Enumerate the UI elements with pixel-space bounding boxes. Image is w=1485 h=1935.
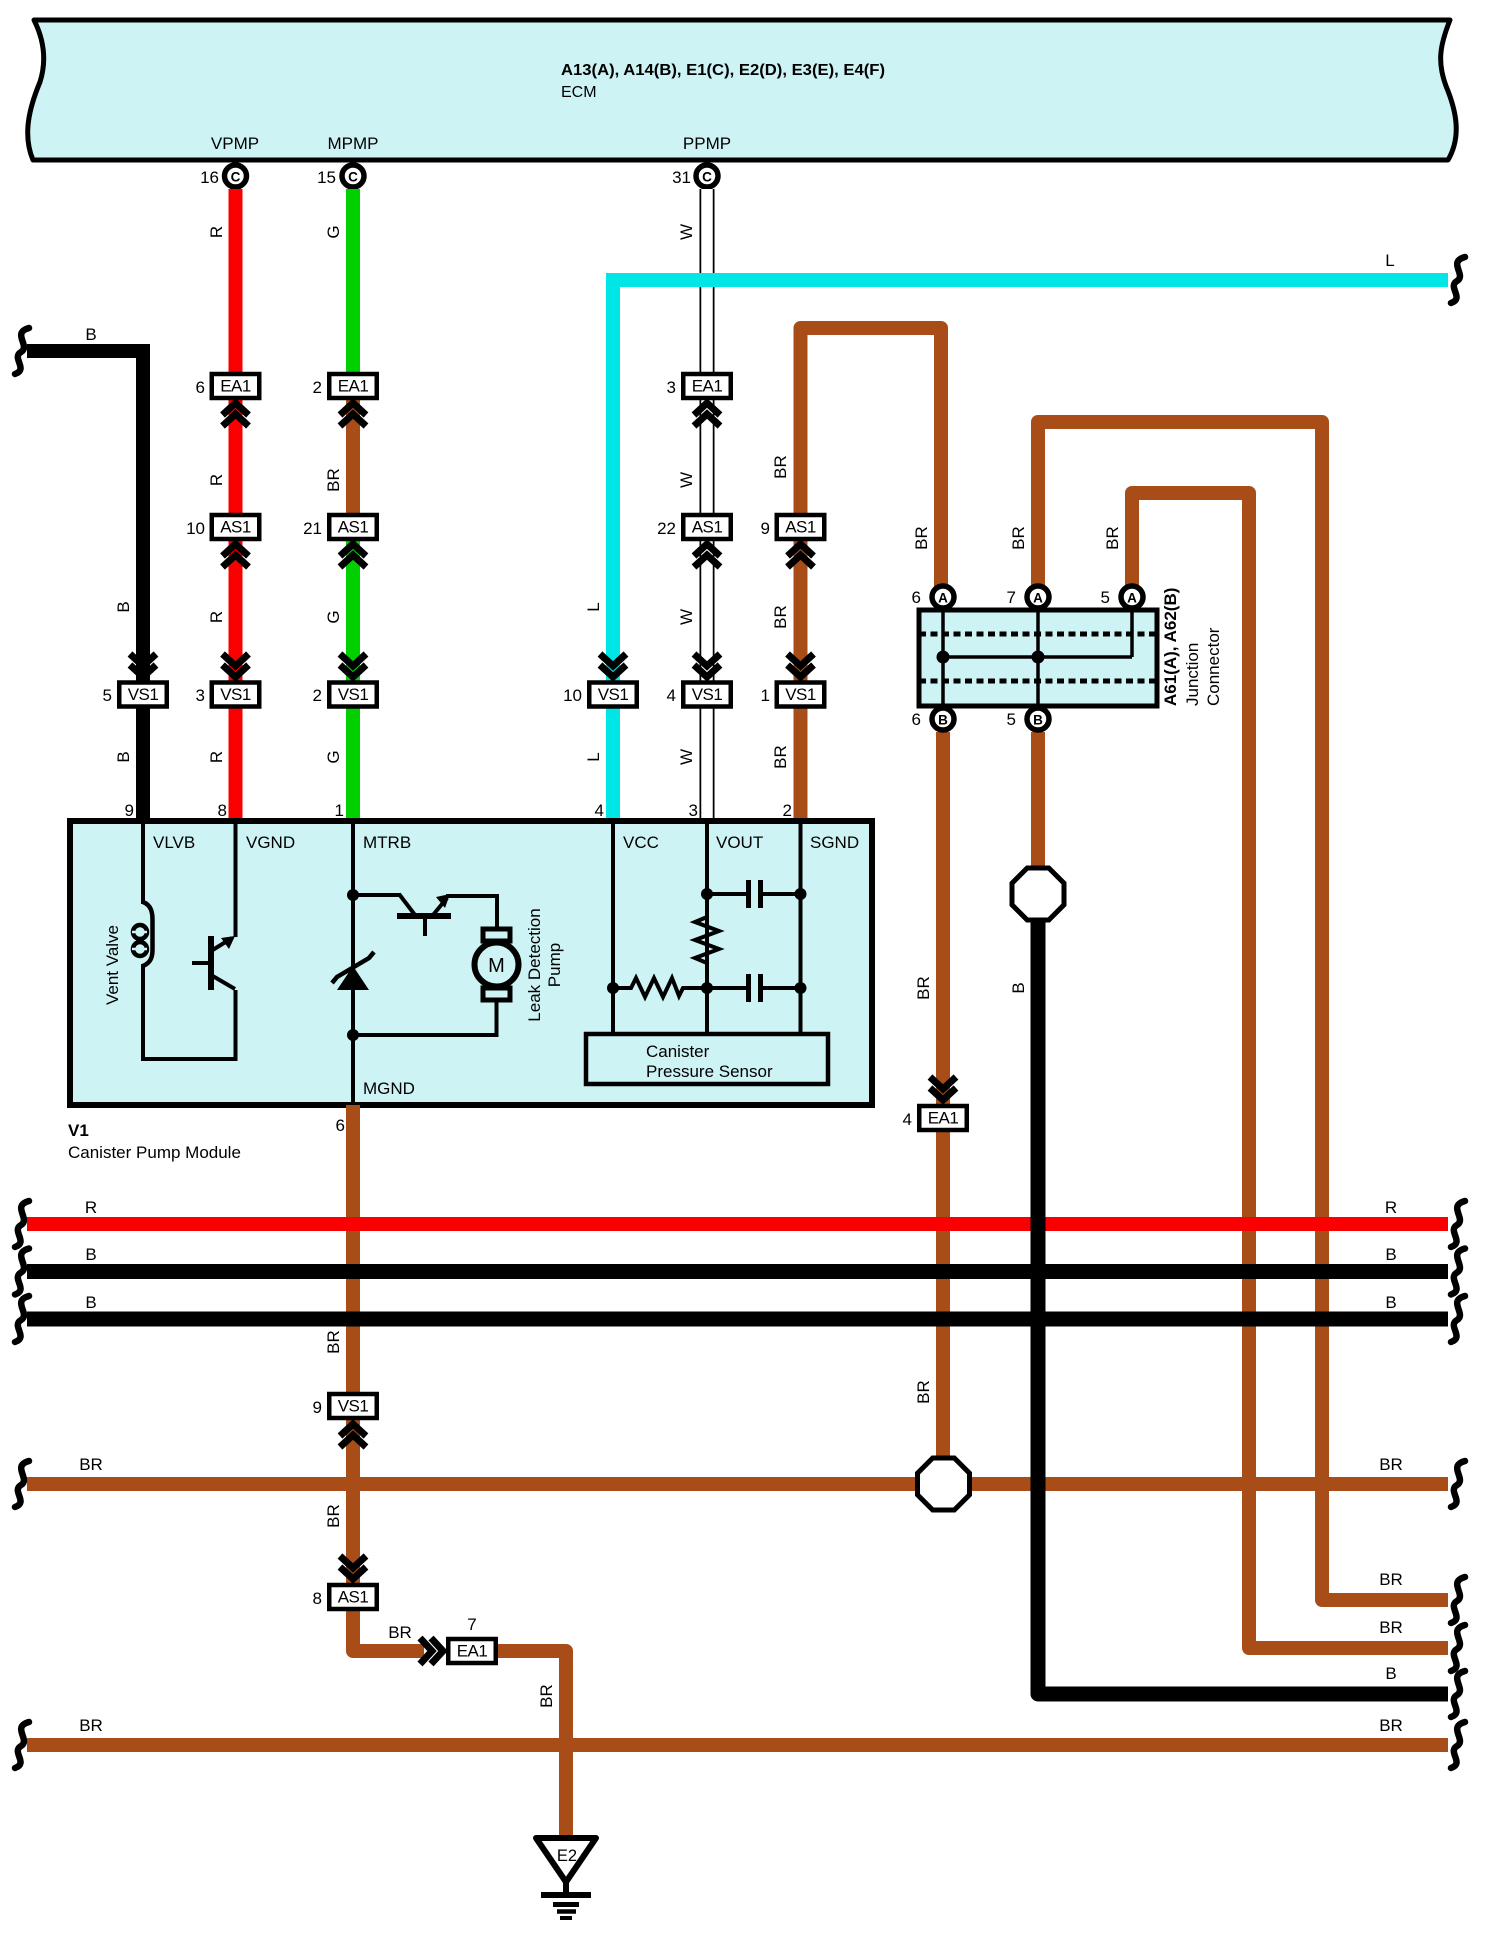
svg-text:VLVB: VLVB [153,833,195,852]
svg-text:B: B [114,601,133,612]
svg-text:6: 6 [196,378,205,397]
connector VS1 pin 3 (red wire) [196,654,260,707]
connector EA1 pin 2 (green wire) [313,374,377,426]
wire BR from junction 7A up over and down to right break [1038,422,1448,1600]
svg-text:BR: BR [324,468,343,492]
svg-text:R: R [207,751,226,763]
svg-text:SGND: SGND [810,833,859,852]
svg-text:B: B [1385,1245,1396,1264]
connector AS1 pin 22 (white wire) [657,515,731,567]
svg-text:BR: BR [1379,1716,1403,1735]
svg-text:R: R [207,611,226,623]
svg-text:10: 10 [563,686,582,705]
svg-text:G: G [324,225,343,238]
break symbol B wire right end [1451,1671,1465,1717]
svg-text:BR: BR [79,1455,103,1474]
wire L horizontal from x=613 to right break [613,280,1448,821]
node dot VOUT row2 [701,982,713,994]
junction internal wire pin 5A column [1130,610,1134,657]
svg-text:B: B [85,1245,96,1264]
svg-text:9: 9 [313,1398,322,1417]
wire R from ECM 16 to module VGND pin 8 [229,189,243,821]
connector AS1 pin 9 (brown wire) [761,515,825,567]
node dot SGND cap1 [795,888,807,900]
svg-text:Connector: Connector [1204,627,1223,706]
junction internal wire pin 6 column [941,610,945,706]
svg-text:BR: BR [1009,526,1028,550]
zener diode D1 [332,952,374,990]
svg-text:B: B [1009,982,1028,993]
break symbol B2 bus right [1451,1296,1465,1342]
svg-text:BR: BR [388,1623,412,1642]
junction connector A61(A) A62(B) box [919,610,1157,706]
svg-text:10: 10 [186,519,205,538]
break symbol right end of L wire [1451,257,1465,303]
wire B from octagon 1 down and right to break [1038,919,1448,1694]
svg-text:VPMP: VPMP [211,134,259,153]
svg-text:BR: BR [912,526,931,550]
vent valve branch wire from pin 9 [141,821,145,904]
wire BR from EA1-7 right and down to ground [498,1651,566,1836]
svg-text:4: 4 [667,686,676,705]
svg-text:21: 21 [303,519,322,538]
ground symbol E2 [536,1838,596,1918]
wire BR from junction 5B down to octagon 1 [1031,732,1045,869]
svg-text:3: 3 [689,801,698,820]
junction node dot col7 [1032,651,1045,664]
bus wire B2 horizontal [27,1312,1448,1327]
ECM pin 31 (C) PPMP [672,165,718,187]
break symbol BR bus right [1451,1461,1465,1507]
connector EA1 pin 7 (horizontal) [420,1615,496,1664]
wire from Q2 emitter to motor [446,896,497,931]
junction internal wire pin 7/5 column [1036,610,1040,706]
svg-text:BR: BR [771,745,790,769]
break symbol BR bus left [15,1461,29,1507]
connector AS1 pin 21 (green wire) [303,515,377,567]
junction internal bus wire [943,655,1132,659]
svg-text:15: 15 [317,168,336,187]
connector EA1 pin 4 on 6B wire [903,1077,967,1130]
svg-text:R: R [207,226,226,238]
connector VS1 pin 5 (black wire) [103,654,167,707]
svg-text:A13(A), A14(B), E1(C), E2(D),: A13(A), A14(B), E1(C), E2(D), E3(E), E4(… [561,62,885,79]
break symbol B1 bus left [15,1249,29,1295]
svg-text:L: L [1385,251,1394,270]
wire VCC vertical inside module [611,821,615,1034]
wire B from left break to module VLVB pin 9 [27,351,143,821]
svg-text:B: B [1385,1293,1396,1312]
svg-text:L: L [584,602,603,611]
svg-text:G: G [324,610,343,623]
break symbol BR 7A wire right end [1451,1577,1465,1623]
node dot VOUT cap1 [701,888,713,900]
wire BR from junction 6B down to octagon connector [936,732,950,1459]
junction pin 5B [1007,708,1049,730]
break symbol bottom BR left [15,1722,29,1768]
svg-text:6: 6 [336,1116,345,1135]
connector VS1 pin 9 [313,1394,377,1447]
canister pressure sensor box [586,1034,828,1084]
svg-text:W: W [677,609,696,625]
junction pin 7A [1007,586,1049,608]
svg-text:L: L [584,752,603,761]
svg-text:BR: BR [771,605,790,629]
wire BR between VS1-9 and AS1-8 [346,1420,360,1584]
svg-text:Canister Pump Module: Canister Pump Module [68,1143,241,1162]
junction node dot col6 [937,651,950,664]
svg-text:8: 8 [313,1589,322,1608]
connector EA1 pin 6 (red wire) [196,374,260,426]
break symbol BR 5A wire right end [1451,1625,1465,1671]
svg-text:B: B [114,751,133,762]
svg-text:5: 5 [1101,588,1110,607]
svg-text:2: 2 [783,801,792,820]
bottom bus wire BR horizontal [27,1738,1448,1752]
svg-text:Leak Detection: Leak Detection [525,908,544,1021]
octagon connector 1 (brown to black splice) [1012,868,1064,920]
ECM box A13/A14/E1-E4 [28,20,1457,160]
svg-text:BR: BR [1379,1618,1403,1637]
break symbol B2 bus left [15,1296,29,1342]
connector VS1 pin 4 (white wire) [667,654,731,707]
wire BR from module MGND pin 6 down to VS1 [346,1105,360,1394]
svg-text:2: 2 [313,686,322,705]
connector VS1 pin 1 (brown wire) [761,654,825,707]
svg-text:R: R [1385,1198,1397,1217]
svg-text:BR: BR [79,1716,103,1735]
wire VGND vertical inside module [234,821,238,937]
svg-text:4: 4 [903,1110,912,1129]
svg-text:VOUT: VOUT [716,833,763,852]
break symbol bottom BR right [1451,1722,1465,1768]
resistor R2 vertical on VOUT [695,913,719,968]
svg-text:A61(A), A62(B): A61(A), A62(B) [1161,588,1180,706]
bus wire B1 horizontal [27,1264,1448,1279]
svg-text:6: 6 [912,710,921,729]
canister pump module V1 box [70,821,872,1105]
svg-text:3: 3 [196,686,205,705]
break symbol B1 bus right [1451,1249,1465,1295]
ECM pin 15 (C) MPMP [317,165,364,187]
resistor R1 horizontal between VCC and VOUT [613,978,707,997]
capacitor C2 between VOUT and SGND row2 [707,974,801,1002]
svg-text:BR: BR [324,1330,343,1354]
break symbol R bus right [1451,1201,1465,1247]
svg-text:B: B [85,325,96,344]
junction pin 5A [1101,586,1143,608]
svg-text:R: R [85,1198,97,1217]
transistor Q2 (pump motor driver) [353,894,451,936]
wire VOUT vertical inside module [705,821,709,1034]
svg-text:W: W [677,749,696,765]
svg-text:V1: V1 [68,1121,89,1140]
junction connector dashed row A [919,632,1157,637]
wire W from ECM 31 to module VOUT pin 3 (white wire) [700,189,715,821]
node dot SGND row2 [795,982,807,994]
svg-text:BR: BR [914,976,933,1000]
junction pin 6A [912,586,954,608]
svg-text:BR: BR [324,1504,343,1528]
svg-text:Pressure Sensor: Pressure Sensor [646,1062,773,1081]
wire SGND vertical inside module [799,821,803,1034]
svg-text:Pump: Pump [545,943,564,987]
node dot MGND bottom [347,1029,359,1041]
break symbol R bus left [15,1201,29,1247]
svg-text:7: 7 [467,1615,476,1634]
svg-text:Vent Valve: Vent Valve [103,925,122,1005]
svg-text:VCC: VCC [623,833,659,852]
svg-text:ECM: ECM [561,84,597,101]
svg-text:MTRB: MTRB [363,833,411,852]
svg-text:M: M [488,955,505,977]
svg-text:MPMP: MPMP [328,134,379,153]
svg-text:Junction: Junction [1183,643,1202,706]
svg-text:5: 5 [103,686,112,705]
wire G from ECM 15 to module MTRB pin 1 [346,189,360,821]
break symbol left end of B wire [15,328,29,374]
svg-text:8: 8 [218,801,227,820]
svg-text:22: 22 [657,519,676,538]
svg-text:6: 6 [912,588,921,607]
svg-text:1: 1 [335,801,344,820]
svg-text:BR: BR [1103,526,1122,550]
octagon connector 2 on BR bus [918,1458,970,1510]
junction pin 6B [912,708,954,730]
svg-text:R: R [207,474,226,486]
wire BR from module SGND pin 2 up and over to junction pin 6A [801,328,942,821]
svg-text:31: 31 [672,168,691,187]
svg-text:BR: BR [771,455,790,479]
svg-text:BR: BR [537,1684,556,1708]
wire from motor to MGND node [353,1000,497,1035]
motor M leak detection pump [475,929,519,1000]
svg-text:VGND: VGND [246,833,295,852]
svg-text:E2: E2 [557,1847,577,1865]
svg-text:MGND: MGND [363,1079,415,1098]
wire BR segment between EA1-2 and AS1-21 [346,398,360,515]
svg-text:BR: BR [1379,1455,1403,1474]
connector AS1 pin 8 [313,1556,377,1609]
connector EA1 pin 3 (white wire) [667,374,731,426]
svg-text:7: 7 [1007,588,1016,607]
connector VS1 pin 10 (cyan wire) [563,654,637,707]
svg-text:3: 3 [667,378,676,397]
node dot MTRB top [347,889,359,901]
ECM pin 16 (C) VPMP [200,165,246,187]
svg-text:BR: BR [914,1380,933,1404]
svg-text:W: W [677,472,696,488]
svg-text:Canister: Canister [646,1042,710,1061]
node dot VCC row2 [607,982,619,994]
svg-text:BR: BR [1379,1570,1403,1589]
capacitor C1 between VOUT and SGND [707,880,801,908]
svg-text:1: 1 [761,686,770,705]
wire BR from junction 5A up over and down to right break [1132,493,1448,1648]
svg-text:B: B [85,1293,96,1312]
wire MTRB vertical inside module [351,821,355,1104]
svg-text:9: 9 [125,801,134,820]
svg-text:4: 4 [595,801,604,820]
svg-text:2: 2 [313,378,322,397]
svg-text:9: 9 [761,519,770,538]
vent valve wire bottom loop [143,964,236,1059]
svg-text:G: G [324,750,343,763]
svg-text:W: W [677,224,696,240]
svg-text:5: 5 [1007,710,1016,729]
transistor Q1 (vent valve driver) [192,936,235,990]
svg-text:PPMP: PPMP [683,134,731,153]
bus wire R horizontal [27,1217,1448,1231]
connector VS1 pin 2 (green wire) [313,654,377,707]
connector AS1 pin 10 (red wire) [186,515,259,567]
bus wire BR horizontal with octagon 2 [27,1477,918,1491]
svg-text:B: B [1385,1664,1396,1683]
junction connector dashed row B [919,679,1157,684]
svg-text:16: 16 [200,168,219,187]
wire BR from AS1-8 down and right to EA1-7 [353,1611,424,1651]
vent valve coil L1 [143,902,153,966]
